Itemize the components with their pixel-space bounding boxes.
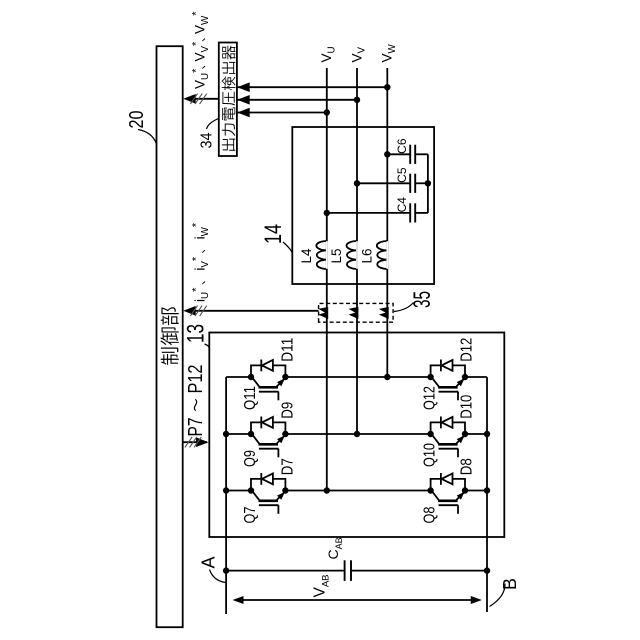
junction node Q9 collector [248, 431, 254, 437]
wire inverter leg V [226, 433, 487, 435]
junction node Q7 emitter [282, 487, 288, 493]
wire DC link branch upper [226, 570, 345, 572]
wire gate signal bus P7-P12 [183, 441, 207, 443]
svg-text:L5: L5 [329, 248, 344, 263]
junction node phase V tap [354, 431, 360, 437]
capacitor C6 [410, 145, 415, 164]
svg-text:D7: D7 [280, 458, 297, 475]
transistor Q11 [252, 376, 285, 401]
transistor Q7 [252, 489, 285, 514]
svg-text:C4: C4 [395, 197, 409, 213]
transistor Q10 [431, 433, 464, 458]
label i_U* i_V* i_W* [191, 222, 211, 302]
wire detector tap U [237, 112, 327, 114]
wire C4 branch lower [415, 212, 428, 214]
label V_AB [312, 574, 332, 597]
junction node tap V [354, 97, 360, 103]
wire detector tap V [237, 99, 357, 101]
junction node Q8 emitter [462, 487, 468, 493]
junction node C_AB bottom [484, 567, 490, 573]
wire negative DC rail (B) [486, 377, 488, 612]
arrowhead P bus into inverter box [196, 437, 209, 447]
leader arc for A [210, 570, 226, 583]
wire C6 branch lower [415, 153, 428, 155]
svg-text:Q9: Q9 [242, 450, 259, 467]
diode D9 [251, 417, 285, 435]
diode D10 [431, 417, 465, 435]
label D8 [459, 458, 476, 475]
capacitor C_AB [345, 560, 351, 581]
svg-text:D9: D9 [280, 402, 297, 419]
leader line for 35 [394, 303, 414, 312]
diode D12 [431, 360, 465, 378]
wire V* signal bus [186, 98, 219, 100]
svg-text:C5: C5 [395, 167, 409, 183]
svg-text:20: 20 [126, 111, 148, 129]
junction node Q11 emitter [282, 374, 288, 380]
arrowhead V* into control unit [183, 94, 196, 104]
wire C6 branch upper [387, 153, 410, 155]
junction node C5 tap [354, 180, 360, 186]
label C_AB [325, 537, 344, 559]
svg-text:D8: D8 [459, 458, 476, 475]
label L5 [329, 248, 344, 263]
svg-text:35: 35 [409, 291, 436, 308]
label Q12 [422, 386, 439, 410]
label C5 [395, 167, 409, 183]
junction node Q9 emitter [282, 431, 288, 437]
junction node leg V bottom rail [484, 431, 490, 437]
junction node C6 tap [384, 151, 390, 157]
junction node leg U top rail [223, 487, 229, 493]
output voltage detector box 34 [219, 43, 237, 157]
label terminal B [500, 578, 520, 590]
inductor L4 [316, 241, 327, 269]
transistor Q8 [431, 489, 464, 514]
svg-text:Q12: Q12 [422, 386, 439, 410]
svg-text:Q10: Q10 [422, 443, 439, 467]
svg-text:P12: P12 [185, 365, 207, 394]
label V_W output terminal [380, 43, 398, 62]
diode D7 [251, 473, 285, 491]
svg-text:14: 14 [260, 224, 287, 244]
junction node C_AB top [223, 567, 229, 573]
svg-text:13: 13 [183, 324, 210, 343]
current sensor W phase [380, 307, 388, 318]
leader arc for B [490, 584, 506, 607]
leader line for 14 [283, 242, 292, 254]
junction node phase W tap [384, 374, 390, 380]
wire i* feedback bus [186, 310, 319, 312]
junction node star point C5 [425, 180, 431, 186]
svg-text:P7: P7 [185, 418, 207, 437]
junction node leg V top rail [223, 431, 229, 437]
label C6 [395, 138, 409, 154]
arrowhead i* into control unit [183, 306, 196, 316]
detector label 出力電圧検出器 [222, 46, 236, 151]
label L6 [359, 248, 374, 263]
label Q9 [242, 450, 259, 467]
svg-text:A: A [199, 556, 219, 568]
wire C5 branch upper [357, 182, 410, 184]
inductor L6 [377, 241, 388, 269]
label Q7 [242, 506, 259, 523]
filter box 14 [292, 127, 434, 284]
label Q10 [422, 443, 439, 467]
control unit box 20 (制御部) [157, 46, 183, 627]
transistor Q12 [431, 376, 464, 401]
svg-text:D11: D11 [280, 338, 297, 362]
label V_V output terminal [349, 46, 367, 62]
junction node Q10 collector [427, 431, 433, 437]
junction node Q10 emitter [462, 431, 468, 437]
junction node tap W [384, 84, 390, 90]
current sensor box 35 (dashed) [319, 303, 394, 322]
control unit label 制御部 [160, 307, 178, 364]
label D10 [459, 395, 476, 419]
wire phase V line [356, 68, 358, 434]
bus slash marks on i* feedback [190, 306, 197, 316]
junction node phase U tap [324, 487, 330, 493]
svg-text:D10: D10 [459, 395, 476, 419]
inverter box 13 [209, 333, 504, 538]
label D11 [280, 338, 297, 362]
wire positive DC rail (A) [225, 377, 227, 614]
label Q11 [242, 386, 259, 410]
capacitor C4 [410, 203, 415, 222]
diode D11 [251, 360, 285, 378]
label V_U output terminal [319, 46, 337, 62]
svg-text:Q11: Q11 [242, 386, 259, 410]
diode D8 [431, 473, 465, 491]
junction node Q12 collector [427, 374, 433, 380]
arrowhead tap V into detector [237, 95, 250, 105]
transistor Q9 [252, 433, 285, 458]
junction node Q8 collector [427, 487, 433, 493]
current sensor U phase [320, 307, 328, 318]
label D9 [280, 402, 297, 419]
junction node tap U [324, 109, 330, 115]
label P7 ~ P12 [185, 365, 207, 437]
wire inverter leg U [226, 490, 487, 492]
measurement arrow V_AB [233, 596, 482, 604]
leader line for 34 [207, 119, 219, 130]
wire detector tap W [237, 86, 387, 88]
label C4 [395, 197, 409, 213]
svg-text:D12: D12 [459, 338, 476, 362]
capacitor C5 [410, 174, 415, 193]
wire inverter leg W [226, 376, 487, 378]
inductor L5 [347, 241, 358, 269]
svg-text:C6: C6 [395, 138, 409, 154]
leader line for 13 [205, 344, 210, 349]
junction node Q11 collector [248, 374, 254, 380]
svg-text:L4: L4 [299, 248, 314, 264]
arrowhead tap U into detector [237, 108, 250, 118]
label terminal A [199, 556, 219, 568]
label Q8 [422, 506, 439, 523]
svg-text:Q8: Q8 [422, 506, 439, 523]
svg-text:Q7: Q7 [242, 506, 259, 523]
wire C5 branch lower [415, 182, 428, 184]
current sensor V phase [350, 307, 358, 318]
wire phase U line [326, 68, 328, 491]
svg-text:34: 34 [198, 132, 215, 148]
junction node leg U bottom rail [484, 487, 490, 493]
svg-text:L6: L6 [359, 248, 374, 263]
wire capacitor star bus [427, 154, 429, 213]
junction node Q7 collector [248, 487, 254, 493]
bus slash marks on P bus [185, 437, 192, 447]
label L4 [299, 248, 314, 264]
label D7 [280, 458, 297, 475]
arrowhead tap W into detector [237, 82, 250, 92]
wire DC link branch lower [351, 570, 487, 572]
leader line for 20 [138, 130, 156, 144]
label D12 [459, 338, 476, 362]
svg-text:B: B [500, 578, 520, 590]
junction node C4 tap [324, 210, 330, 216]
wire phase W line [386, 68, 388, 377]
junction node Q12 emitter [462, 374, 468, 380]
label V_U* V_V* V_W* [191, 11, 211, 89]
bus slash marks on V* signal [190, 94, 197, 104]
wire C4 branch upper [327, 212, 410, 214]
